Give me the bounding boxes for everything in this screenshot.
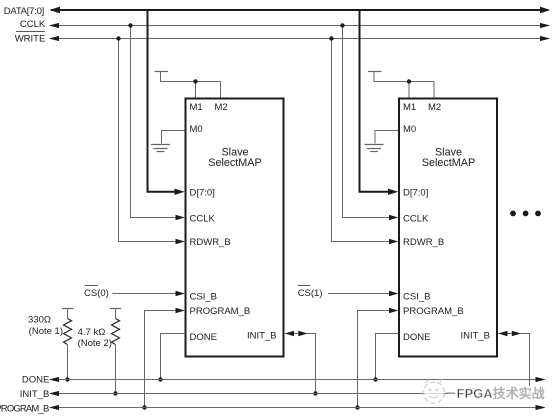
watermark text FPGA ji shu shi zhan: [457, 386, 545, 401]
svg-text:M0: M0: [190, 124, 203, 135]
watermark dash: [447, 392, 456, 394]
svg-text:M1: M1: [190, 102, 203, 113]
IC U1 name Slave SelectMAP: [208, 146, 261, 169]
junction U2 M1/VCC: [407, 79, 411, 83]
junction R1/DONE bus: [65, 377, 69, 381]
wire CCLK tap to U1 CCLK: [131, 26, 178, 218]
svg-text:330Ω: 330Ω: [28, 314, 51, 325]
svg-text:INIT_B: INIT_B: [247, 331, 277, 342]
pin arrow into U2 D[7:0]: [388, 189, 398, 195]
wire R2 to INIT_B bus: [115, 345, 117, 394]
resistor R1 330 ohm zigzag: [64, 319, 72, 345]
svg-text:D[7:0]: D[7:0]: [190, 188, 215, 199]
IC U2 body rect: [399, 99, 497, 357]
svg-text:CS(0): CS(0): [84, 288, 109, 299]
pin arrow into U2 PROGRAM_B: [389, 308, 398, 313]
junction U2 DONE/DONE bus: [373, 377, 377, 381]
vcc pull-up symbol for U2 M1/M2: [368, 72, 434, 82]
wire U2 M0 to ground: [375, 131, 399, 144]
wire U2 INIT_B to INIT_B bus (bidirectional): [499, 334, 530, 394]
arrow on U1 INIT_B wire (right): [298, 331, 307, 336]
arrow on U2 INIT_B wire (right): [512, 331, 521, 336]
wire CS(0) to U1 CSI_B: [113, 293, 178, 295]
svg-text:DONE: DONE: [190, 332, 217, 343]
svg-text:DONE: DONE: [403, 332, 430, 343]
wire WRITE bus (top): [49, 36, 550, 41]
wire U2 DONE to DONE bus: [376, 334, 399, 380]
svg-text:SelectMAP: SelectMAP: [208, 157, 261, 169]
pin arrow into U2 INIT_B (left): [498, 331, 507, 336]
net label CS(1) (overline on CS): [298, 286, 323, 300]
svg-text:SelectMAP: SelectMAP: [422, 157, 475, 169]
svg-text:RDWR_B: RDWR_B: [190, 237, 231, 248]
junction PROGRAM_B/U2: [355, 405, 359, 409]
wire U1 INIT_B to INIT_B bus (bidirectional): [285, 334, 316, 394]
ground symbol GND1: [151, 145, 170, 152]
svg-text:CSI_B: CSI_B: [403, 291, 430, 302]
resistor R2 4.7 kohm pull-up (vcc bar): [110, 309, 122, 319]
value label 4.7 kohm (Note 2): [78, 327, 112, 349]
pin arrow into U1 INIT_B (left): [285, 331, 294, 336]
pin arrow into U2 CCLK: [389, 215, 398, 220]
wire DATA bus tap to U2 D[7:0] (thick): [360, 11, 390, 192]
svg-text:PROGRAM_B: PROGRAM_B: [190, 306, 251, 317]
wire PROGRAM_B bus tap to U2 PROGRAM_B: [358, 311, 391, 408]
vcc pull-up symbol for U1 M1/M2: [155, 72, 221, 82]
wire CS(1) to U2 CSI_B: [328, 293, 391, 295]
ground symbol GND2: [365, 145, 384, 152]
pin arrow into U2 CSI_B: [389, 291, 398, 296]
svg-text:(Note 1): (Note 1): [29, 326, 63, 337]
junction U1 INIT_B/INIT_B bus: [313, 391, 317, 395]
svg-text:D[7:0]: D[7:0]: [403, 188, 428, 199]
pin arrow into U1 PROGRAM_B: [176, 308, 185, 313]
resistor R1 330 ohm pull-up (vcc bar): [62, 309, 74, 319]
svg-text:WRITE: WRITE: [15, 33, 46, 44]
wire DATA[7:0] bus (top): [49, 7, 550, 14]
svg-text:CS(1): CS(1): [298, 288, 323, 299]
wire PROGRAM_B bus tap to U1 PROGRAM_B: [145, 311, 178, 408]
net label CS(0) (overline on CS): [84, 286, 109, 300]
junction R2/INIT_B bus: [113, 391, 117, 395]
svg-text:4.7 kΩ: 4.7 kΩ: [78, 327, 106, 338]
svg-text:RDWR_B: RDWR_B: [403, 237, 444, 248]
junction M1/VCC: [193, 79, 197, 83]
svg-text:CSI_B: CSI_B: [190, 291, 217, 302]
wire DONE bus (bottom): [49, 377, 546, 382]
junction U2 INIT_B/INIT_B bus: [527, 391, 531, 395]
svg-text:CCLK: CCLK: [190, 213, 216, 224]
pin arrow into U1 CSI_B: [176, 291, 185, 296]
node ellipsis (more devices): [510, 211, 541, 217]
wire U1 DONE to DONE bus: [161, 334, 186, 380]
wire CCLK bus (top): [49, 23, 550, 28]
watermark logo (cartoon badge): [424, 379, 445, 403]
svg-text:INIT_B: INIT_B: [460, 331, 490, 342]
IC U2 Slave SelectMAP (body, pins, vcc, ground): [365, 72, 498, 357]
wire DATA bus tap to U1 D[7:0] (thick): [148, 11, 177, 192]
IC U1 Slave SelectMAP body: [186, 99, 284, 357]
wire CCLK tap to U2 CCLK: [343, 26, 391, 218]
pin arrow into U1 D[7:0]: [175, 189, 185, 195]
wire U2 M2 stub: [433, 82, 435, 99]
value label 330 ohm (Note 1): [28, 314, 63, 337]
wire U1 M0 to ground: [162, 131, 186, 144]
IC U2 name Slave SelectMAP: [422, 146, 475, 169]
svg-text:FPGA技术实战: FPGA技术实战: [457, 386, 545, 401]
junction CCLK/U1: [128, 23, 132, 27]
svg-text:M1: M1: [403, 102, 416, 113]
wire PROGRAM_B bus (bottom): [49, 405, 546, 410]
svg-text:DONE: DONE: [22, 375, 49, 386]
pin arrow into U1 RDWR_B: [176, 239, 185, 244]
svg-text:CCLK: CCLK: [403, 213, 429, 224]
wire WRITE tap to U2 RDWR_B: [332, 39, 391, 242]
svg-text:M2: M2: [428, 102, 441, 113]
pin arrow into U2 RDWR_B: [389, 239, 398, 244]
svg-text:PROGRAM_B: PROGRAM_B: [0, 403, 49, 414]
wire INIT_B bus (bottom): [49, 391, 546, 396]
svg-text:CCLK: CCLK: [20, 19, 46, 30]
svg-text:DATA[7:0]: DATA[7:0]: [4, 6, 45, 17]
wire U1 M1 stub: [195, 82, 197, 99]
pin arrow into U1 CCLK: [176, 215, 185, 220]
wire WRITE tap to U1 RDWR_B: [119, 39, 178, 242]
junction WRITE/U1: [116, 36, 120, 40]
svg-text:(Note 2): (Note 2): [78, 338, 112, 349]
net label WRITE (active low, overline): [15, 32, 46, 45]
resistor R2 4.7 kohm zigzag: [112, 319, 120, 345]
svg-text:INIT_B: INIT_B: [20, 389, 50, 400]
svg-text:M0: M0: [403, 124, 416, 135]
wire U2 M1 stub: [408, 82, 410, 99]
junction PROGRAM_B/U1: [142, 405, 146, 409]
wire U1 M2 stub: [220, 82, 222, 99]
junction U1 DONE/DONE bus: [158, 377, 162, 381]
junction WRITE/U2: [329, 36, 333, 40]
wire R1 to DONE bus: [67, 345, 69, 380]
junction CCLK/U2: [340, 23, 344, 27]
svg-text:M2: M2: [215, 102, 228, 113]
svg-text:PROGRAM_B: PROGRAM_B: [403, 306, 464, 317]
